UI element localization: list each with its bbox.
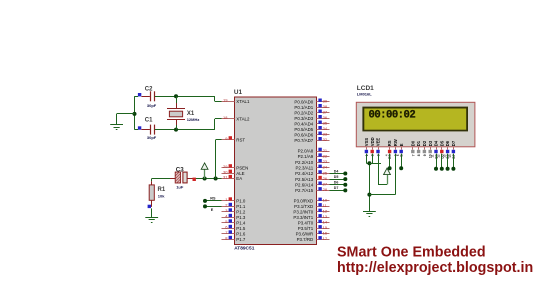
svg-text:D3: D3 — [428, 140, 433, 146]
svg-text:39: 39 — [323, 99, 328, 104]
svg-text:P1.7: P1.7 — [236, 237, 246, 242]
svg-text:19: 19 — [223, 98, 228, 103]
svg-text:D6: D6 — [334, 181, 339, 185]
svg-text:P1.0: P1.0 — [236, 199, 246, 204]
svg-text:C2: C2 — [145, 87, 153, 93]
svg-text:7: 7 — [225, 230, 228, 235]
svg-text:37: 37 — [323, 110, 328, 115]
svg-text:29: 29 — [223, 164, 228, 169]
svg-text:P3.3/INT1: P3.3/INT1 — [293, 215, 313, 220]
svg-text:23: 23 — [323, 159, 328, 164]
svg-text:U1: U1 — [234, 89, 243, 96]
svg-text:5: 5 — [225, 219, 228, 224]
svg-text:E: E — [211, 208, 214, 212]
svg-text:17: 17 — [323, 236, 328, 241]
svg-text:P0.6/AD6: P0.6/AD6 — [294, 132, 313, 137]
svg-text:P2.4/A12: P2.4/A12 — [295, 171, 314, 176]
svg-text:RW: RW — [393, 139, 398, 146]
svg-text:P0.5/AD5: P0.5/AD5 — [294, 127, 313, 132]
svg-text:D7: D7 — [451, 140, 456, 146]
svg-text:27: 27 — [323, 182, 328, 187]
svg-text:15: 15 — [323, 225, 328, 230]
svg-text:1uF: 1uF — [176, 184, 184, 189]
svg-text:31: 31 — [223, 175, 228, 180]
svg-text:30pF: 30pF — [147, 103, 157, 108]
svg-text:24: 24 — [323, 165, 328, 170]
svg-text:13: 13 — [323, 214, 328, 219]
svg-text:21: 21 — [323, 148, 328, 153]
svg-text:26: 26 — [323, 176, 328, 181]
svg-text:38: 38 — [323, 104, 328, 109]
svg-text:RS: RS — [388, 154, 392, 159]
svg-text:P3.1/TXD: P3.1/TXD — [294, 204, 313, 209]
svg-text:XTAL2: XTAL2 — [236, 117, 250, 122]
svg-text:28: 28 — [323, 187, 328, 192]
svg-text:P0.1/AD1: P0.1/AD1 — [294, 105, 313, 110]
svg-text:P2.1/A9: P2.1/A9 — [298, 154, 314, 159]
svg-text:C1: C1 — [145, 118, 153, 124]
svg-text:D7: D7 — [334, 186, 339, 190]
svg-text:P1.3: P1.3 — [236, 215, 246, 220]
svg-text:12MHz: 12MHz — [187, 117, 200, 122]
svg-text:30pF: 30pF — [147, 135, 157, 140]
svg-text:P3.0/RXD: P3.0/RXD — [294, 199, 314, 204]
svg-text:6: 6 — [396, 154, 400, 156]
svg-text:VEE: VEE — [376, 138, 381, 147]
svg-text:P1.4: P1.4 — [236, 221, 246, 226]
svg-text:VDD: VDD — [370, 137, 375, 146]
svg-text:PSEN: PSEN — [236, 165, 248, 170]
svg-text:SMart One Embedded: SMart One Embedded — [337, 245, 486, 261]
svg-text:25: 25 — [323, 170, 328, 175]
svg-text:P0.7/AD7: P0.7/AD7 — [294, 138, 313, 143]
svg-text:33: 33 — [323, 132, 328, 137]
svg-text:P0.0/AD0: P0.0/AD0 — [294, 99, 313, 104]
svg-text:http://elexproject.blogspot.in: http://elexproject.blogspot.in — [337, 260, 533, 276]
svg-text:P1.5: P1.5 — [236, 226, 246, 231]
svg-text:8: 8 — [417, 154, 421, 156]
svg-text:11: 11 — [323, 203, 328, 208]
svg-text:P0.4/AD4: P0.4/AD4 — [294, 121, 313, 126]
svg-text:P2.5/A13: P2.5/A13 — [295, 177, 314, 182]
svg-text:D4: D4 — [334, 169, 339, 173]
svg-text:RS: RS — [387, 140, 392, 146]
svg-text:D5: D5 — [334, 175, 339, 179]
svg-text:22: 22 — [323, 153, 328, 158]
svg-text:P0.3/AD3: P0.3/AD3 — [294, 116, 313, 121]
svg-text:ALE: ALE — [236, 171, 244, 176]
svg-text:D2: D2 — [422, 140, 427, 146]
svg-text:VSS: VSS — [364, 138, 369, 147]
svg-text:14: 14 — [448, 154, 452, 158]
svg-text:E: E — [399, 143, 404, 146]
svg-text:C3: C3 — [176, 167, 184, 174]
svg-text:4: 4 — [384, 154, 388, 156]
svg-text:P3.5/T1: P3.5/T1 — [298, 226, 314, 231]
svg-text:P2.0/A8: P2.0/A8 — [298, 149, 314, 154]
svg-text:36: 36 — [323, 115, 328, 120]
svg-text:12: 12 — [437, 154, 441, 158]
svg-text:P2.2/A10: P2.2/A10 — [295, 160, 314, 165]
svg-text:P1.6: P1.6 — [236, 232, 246, 237]
svg-text:34: 34 — [323, 126, 328, 131]
svg-text:AT89C51: AT89C51 — [234, 246, 255, 252]
svg-text:EA: EA — [236, 176, 242, 181]
svg-text:XTAL1: XTAL1 — [236, 99, 250, 104]
svg-text:14: 14 — [323, 220, 328, 225]
svg-text:3: 3 — [225, 208, 228, 213]
svg-text:P2.7/A15: P2.7/A15 — [295, 188, 314, 193]
svg-text:RST: RST — [236, 137, 245, 142]
svg-text:18: 18 — [223, 115, 228, 120]
svg-text:P3.6/WR: P3.6/WR — [296, 232, 314, 237]
svg-text:P3.4/T0: P3.4/T0 — [298, 221, 314, 226]
svg-text:D5: D5 — [439, 140, 444, 146]
svg-text:9: 9 — [225, 136, 228, 141]
svg-text:16: 16 — [323, 231, 328, 236]
svg-text:00:00:02: 00:00:02 — [369, 110, 416, 122]
svg-text:P2.3/A11: P2.3/A11 — [295, 165, 313, 170]
svg-text:D0: D0 — [410, 140, 415, 146]
svg-text:D4: D4 — [434, 140, 439, 146]
svg-text:P3.7/RD: P3.7/RD — [297, 237, 314, 242]
svg-text:D1: D1 — [416, 140, 421, 146]
svg-text:D6: D6 — [445, 140, 450, 146]
svg-text:10: 10 — [323, 198, 328, 203]
svg-text:13: 13 — [442, 154, 446, 158]
svg-text:P1.2: P1.2 — [236, 210, 246, 215]
svg-text:30: 30 — [223, 169, 228, 174]
svg-text:12: 12 — [323, 209, 328, 214]
svg-text:RS: RS — [210, 197, 216, 201]
svg-text:R1: R1 — [158, 187, 166, 193]
svg-text:9: 9 — [423, 154, 427, 156]
svg-text:LM016L: LM016L — [357, 91, 372, 96]
svg-text:P1.1: P1.1 — [236, 204, 246, 209]
svg-text:32: 32 — [323, 137, 328, 142]
svg-text:P0.2/AD2: P0.2/AD2 — [294, 110, 313, 115]
svg-text:10k: 10k — [158, 194, 165, 199]
svg-text:P3.2/INT0: P3.2/INT0 — [293, 210, 313, 215]
svg-text:35: 35 — [323, 121, 328, 126]
svg-text:11: 11 — [431, 154, 435, 158]
svg-text:P2.6/A14: P2.6/A14 — [295, 182, 314, 187]
svg-text:1: 1 — [225, 197, 228, 202]
svg-text:7: 7 — [411, 154, 415, 156]
